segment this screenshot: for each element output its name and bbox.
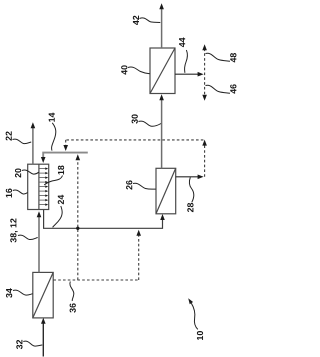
wire 22 (column top product) xyxy=(32,127,34,165)
wire 42 (box 40 overhead) xyxy=(161,8,163,49)
label 14 xyxy=(49,113,56,151)
label 28 xyxy=(187,177,194,212)
wire 44 (box 40 side draw) xyxy=(175,73,200,75)
wire 24 (column bottoms to box 26) xyxy=(44,210,163,229)
label 24 xyxy=(53,195,64,228)
wire 32 (feed to box 34) xyxy=(42,322,44,357)
label 38, 12 xyxy=(10,219,37,243)
label 42 xyxy=(133,16,160,25)
label 32 xyxy=(16,340,42,349)
unit box 40 xyxy=(150,48,175,94)
label 48 xyxy=(206,53,237,62)
label 18 xyxy=(44,166,64,185)
wire 38,12 (box 34 to column) xyxy=(38,216,40,273)
label 30 xyxy=(132,114,161,126)
label 34 xyxy=(6,288,33,298)
wire 14 (feed into column tray section) xyxy=(43,153,88,158)
label 22 xyxy=(6,131,32,143)
label 10 (figure reference with arrow) xyxy=(188,298,203,340)
dashed line 46/48 (vertical at right) xyxy=(204,49,206,97)
label 26 xyxy=(126,180,156,189)
dashed recycle from 28 up and left to line 14 xyxy=(66,140,205,177)
label 16 xyxy=(6,189,28,198)
label 46 xyxy=(206,84,237,93)
unit box 26 xyxy=(156,168,176,214)
tray lines with small arrows inside column xyxy=(39,169,46,205)
wire 30 (box 26 to box 40) xyxy=(161,99,163,169)
dashed line 36 (box 34 side, recycle tee) xyxy=(53,159,138,281)
wire 28 (box 26 side draw) xyxy=(176,176,200,178)
separator column 16/20 (vessel with tray section) xyxy=(28,164,49,209)
label 20 xyxy=(15,168,39,177)
label 36 xyxy=(70,282,76,313)
label 44 xyxy=(179,38,187,73)
label 40 xyxy=(121,65,150,74)
unit box 34 xyxy=(33,272,53,318)
junction dot on line 24 xyxy=(76,227,79,230)
